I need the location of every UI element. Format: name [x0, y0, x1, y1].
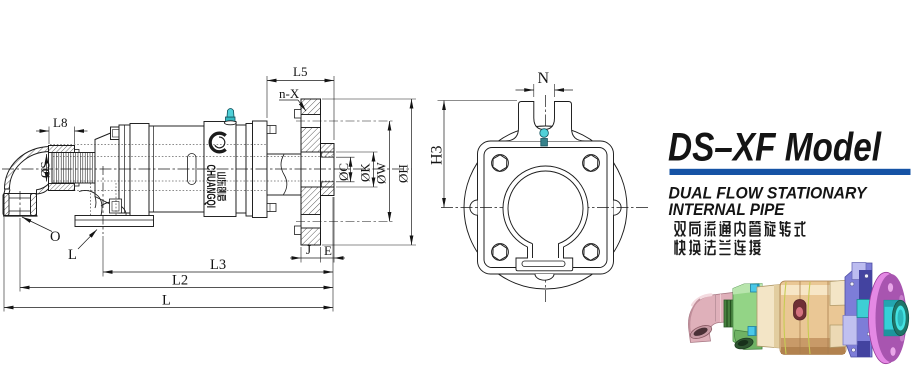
- cyan bolts on green: [751, 284, 760, 292]
- magenta flange disc rim: [869, 272, 904, 363]
- logo C: [210, 133, 226, 152]
- blue rule: [670, 169, 911, 175]
- logo drum D: [204, 122, 236, 217]
- svg-text:N: N: [538, 70, 550, 87]
- cyan collar: [857, 300, 870, 318]
- svg-text:L: L: [68, 247, 77, 263]
- bell cone: [95, 130, 119, 209]
- cream plate: [757, 285, 780, 349]
- horizontal centerline: [441, 207, 649, 209]
- corner bolt bottom-left: [492, 244, 509, 261]
- tall plate G: [253, 121, 268, 218]
- pink elbow: [688, 293, 733, 343]
- collar: [321, 144, 335, 196]
- leader O: [22, 217, 52, 232]
- elbow O: outer wall band: [4, 147, 50, 190]
- drum B: [130, 124, 149, 217]
- svg-text:H3: H3: [429, 145, 446, 165]
- tan body: [780, 281, 846, 355]
- svg-text:DS–XF Model: DS–XF Model: [668, 126, 882, 170]
- cyan bore pipe: [884, 300, 900, 336]
- dims J E: [300, 247, 302, 263]
- dim N: [533, 84, 535, 97]
- hidden bore lines (overlay): [53, 156, 333, 158]
- side bumps: [470, 200, 478, 215]
- ring plate A: [119, 125, 130, 213]
- slot hole on body: [794, 300, 807, 321]
- svg-text:J: J: [306, 242, 311, 257]
- svg-text:ØK: ØK: [358, 163, 373, 182]
- corner bolt bottom-right: [583, 244, 600, 261]
- flange plate (section): [301, 99, 321, 245]
- elbow socket: [4, 194, 37, 216]
- chinese line 2: [674, 240, 760, 256]
- outer circle: [464, 126, 627, 289]
- svg-text:L2: L2: [172, 273, 188, 289]
- mid drum C: [149, 126, 204, 212]
- svg-text:ØH: ØH: [396, 164, 411, 183]
- corner bolt top-left: [492, 155, 509, 172]
- grease fitting (teal): [226, 109, 236, 123]
- blue flange assembly: [845, 263, 872, 357]
- grease fitting front (teal): [540, 129, 549, 146]
- ring E: [236, 125, 246, 213]
- bore keyhole: [503, 166, 588, 271]
- square flange: [478, 141, 614, 274]
- elbow socket centerline: [19, 191, 21, 218]
- svg-text:L8: L8: [53, 115, 67, 130]
- elbow inner wall band: [37, 183, 51, 195]
- svg-text:ØC: ØC: [336, 163, 351, 181]
- dark green threaded nipple: [724, 300, 738, 327]
- cream ring right: [830, 280, 848, 306]
- svg-text:L: L: [162, 293, 171, 309]
- threaded nipple: [52, 153, 96, 184]
- leader L: [78, 230, 97, 250]
- elbow hub: [49, 146, 75, 191]
- foot bump below square: [535, 274, 554, 280]
- dim H3: [438, 100, 518, 102]
- dims oC oK oW oH: [336, 156, 355, 158]
- svg-text:E: E: [324, 243, 332, 258]
- neck: [267, 154, 301, 195]
- svg-text:CHUANGQI: CHUANGQI: [204, 165, 218, 209]
- svg-text:L3: L3: [210, 257, 226, 273]
- svg-text:O: O: [50, 229, 60, 245]
- chinese line 1: [674, 221, 805, 237]
- svg-text:ØS: ØS: [38, 161, 53, 178]
- bottom dims L3 L2 L: [332, 197, 334, 312]
- housing bolt: [110, 199, 122, 213]
- foot: [75, 216, 154, 227]
- dim L5: [266, 76, 268, 118]
- dim oS: [46, 154, 48, 182]
- magenta flange face: [876, 274, 907, 362]
- pipe walls through flange: [301, 152, 334, 157]
- svg-text:L5: L5: [293, 64, 307, 79]
- top-left stub: [111, 127, 122, 140]
- lower housing bulge: [79, 190, 126, 215]
- svg-text:INTERNAL PIPE: INTERNAL PIPE: [669, 200, 786, 219]
- svg-text:n-X: n-X: [279, 86, 300, 101]
- dim L8: [48, 127, 50, 145]
- tab on top: [505, 102, 585, 142]
- green housing: [733, 284, 762, 350]
- bolt hole centerlines: [296, 120, 394, 122]
- svg-text:ØW: ØW: [374, 162, 389, 184]
- main centerline (overlay): [2, 168, 412, 170]
- flange hub steps: [295, 110, 302, 119]
- centerlines: [545, 95, 547, 302]
- logo chinese (paths): [217, 172, 226, 200]
- drum F: [246, 124, 253, 217]
- corner bolt top-right: [583, 155, 600, 172]
